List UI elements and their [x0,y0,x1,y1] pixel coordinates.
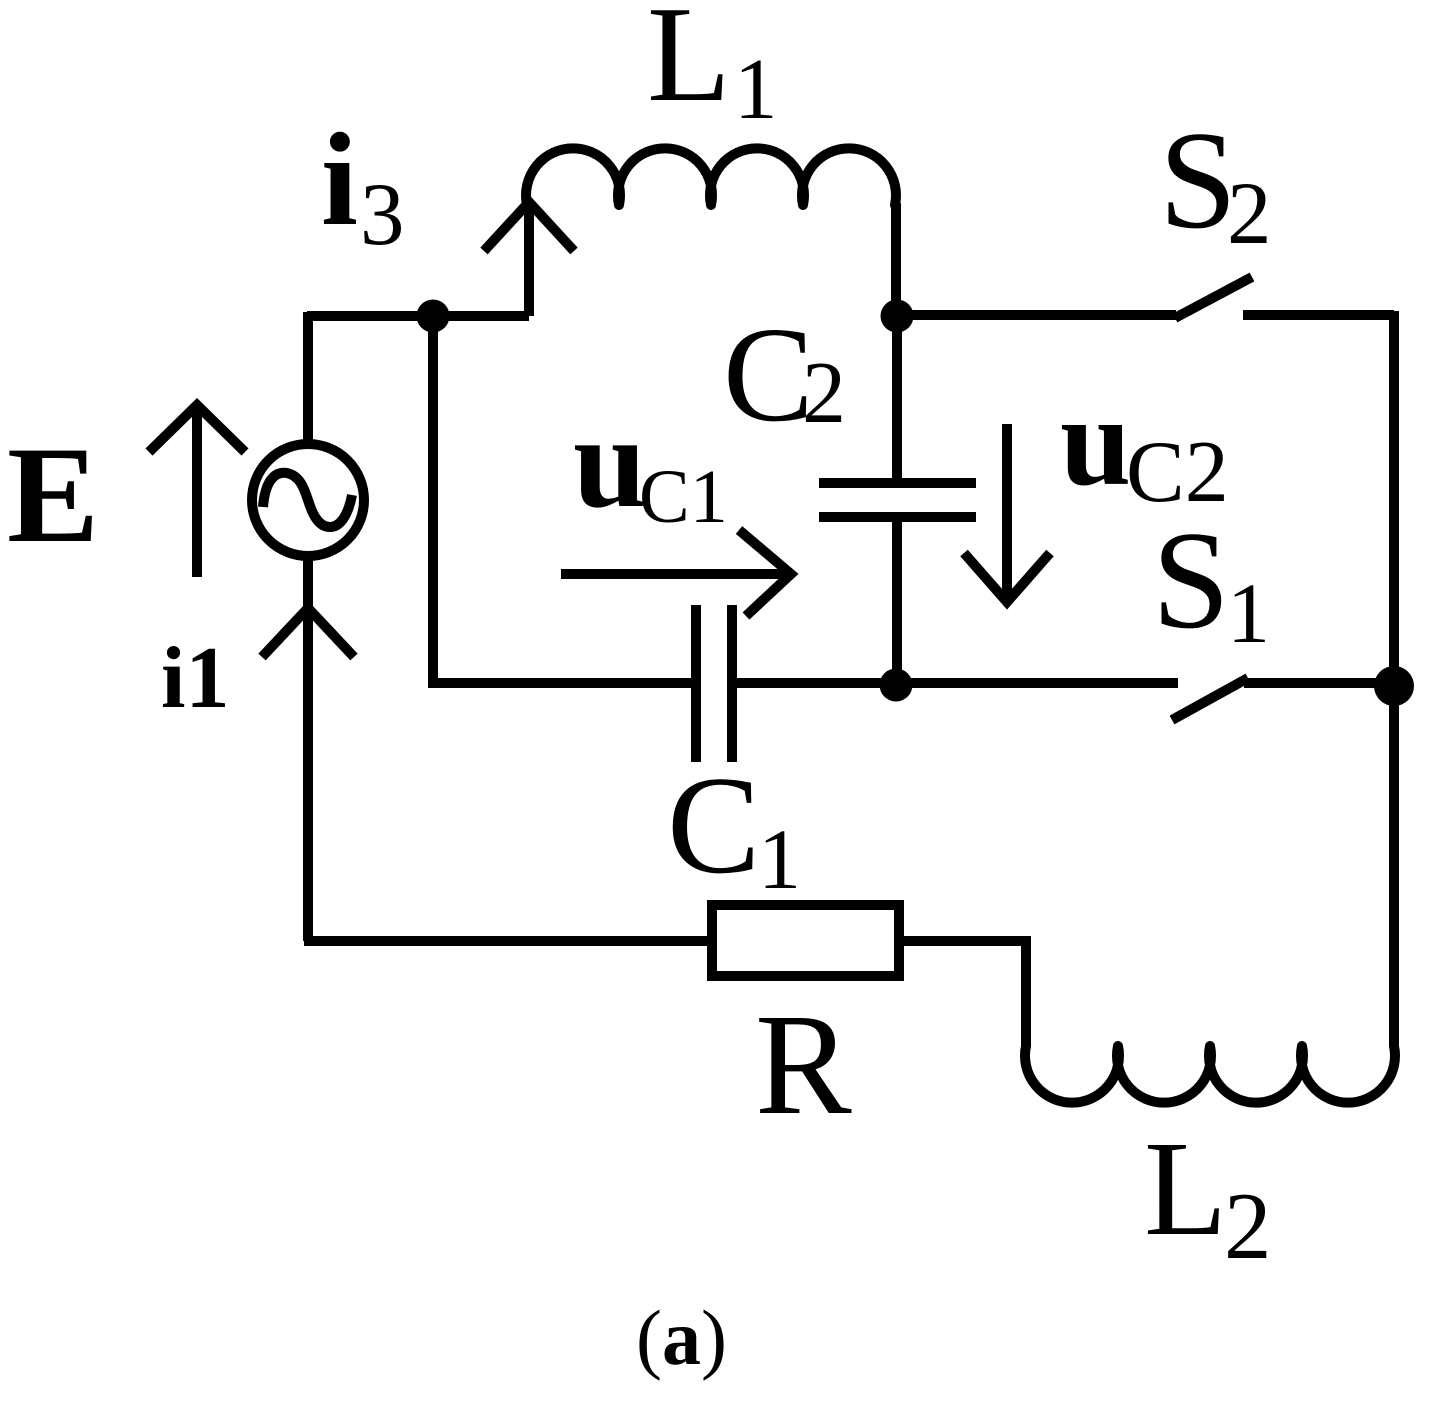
svg-text:S: S [1152,503,1230,658]
switch S1 blade [1172,678,1248,720]
resistor R body [712,905,899,976]
capacitor C2 plates [819,483,976,517]
arrowhead i3 [484,202,574,251]
switch S2 blade [1175,277,1252,318]
arrow u_C2 [964,424,1050,602]
AC source E circle [252,444,364,556]
inductor L2 [1025,1046,1395,1103]
middle bus right of C1 to S1 left contact [737,678,1178,688]
arrow E (emf direction) [149,405,245,577]
svg-text:L: L [647,0,731,130]
capacitor C1 plates [696,605,732,762]
wire top-left horizontal from source branch to L1 branch [307,311,529,321]
svg-text:2: 2 [1224,1173,1272,1279]
arrow u_C1 [561,530,791,616]
sine wave inside source [263,473,352,527]
svg-text:2: 2 [1227,165,1272,263]
wire vertical up to L1 left with i3 arrow [524,204,534,316]
svg-text:u: u [573,388,646,535]
svg-text:L: L [1144,1114,1227,1264]
svg-text:i1: i1 [161,630,229,727]
svg-text:C: C [723,300,814,450]
wire node B to S2 left contact [897,310,1176,320]
svg-text:R: R [755,985,852,1145]
inductor L1 [526,148,896,205]
svg-text:1: 1 [1227,565,1270,661]
wire S2 right contact to corner [1243,310,1394,320]
node A junction dot [417,300,450,333]
node C junction dot [880,669,913,702]
capacitor C2 bottom lead [892,521,902,685]
svg-text:S: S [1159,103,1237,258]
svg-text:(a): (a) [636,1294,727,1381]
node B junction dot [881,300,914,333]
svg-text:C1: C1 [639,455,728,539]
svg-text:i: i [321,105,358,253]
wire resistor right to L2 left [904,941,1026,1046]
wire left vertical above source [303,312,313,441]
arrowhead i1 on source wire [262,608,354,657]
svg-text:3: 3 [360,166,405,264]
wire node A down to middle bus [433,312,691,683]
wire below source down and bottom horizontal to resistor [304,559,707,941]
svg-text:1: 1 [734,40,778,137]
capacitor C2 top lead [892,316,902,479]
svg-text:E: E [7,418,99,571]
wire S1 right contact to node D [1244,678,1394,688]
right vertical wire [1389,311,1399,1046]
node D junction dot [1374,666,1414,706]
wire L1 right end down to node B [891,203,901,316]
svg-text:u: u [1060,370,1131,512]
svg-text:2: 2 [802,345,846,442]
svg-text:C: C [667,748,760,903]
svg-text:1: 1 [758,811,801,907]
